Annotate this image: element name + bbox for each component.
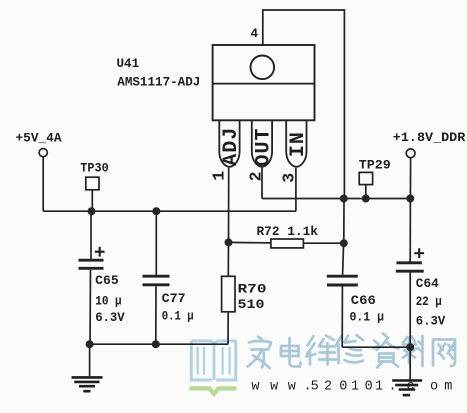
- ground symbol left: [72, 377, 103, 391]
- wire C66 top lead: [343, 243, 344, 275]
- svg-text:1: 1: [210, 171, 229, 181]
- char 家: [248, 337, 272, 369]
- wire C77 bottom lead: [155, 286, 157, 344]
- junction C77/ground node: [152, 340, 160, 348]
- wire C65 bottom lead: [89, 270, 92, 344]
- wire R70 top lead: [227, 242, 229, 276]
- svg-text:w: w: [251, 380, 259, 395]
- test point TP30: [86, 177, 99, 190]
- svg-text:0: 0: [339, 380, 347, 395]
- wire pin2 OUT down: [261, 168, 263, 199]
- svg-text:10 µ: 10 µ: [95, 295, 122, 309]
- wire +5V terminal down: [42, 157, 44, 211]
- wire ground rail right: [342, 346, 410, 348]
- wire R72 right lead: [303, 242, 343, 244]
- svg-text:TP29: TP29: [359, 159, 391, 173]
- svg-text:5: 5: [311, 380, 319, 395]
- svg-text:2: 2: [246, 171, 265, 181]
- wire TP29 stub: [365, 185, 367, 199]
- pin ADJ body: [219, 121, 239, 167]
- svg-text:w: w: [288, 380, 296, 395]
- wire +1.8V terminal down: [409, 158, 411, 199]
- svg-text:2: 2: [324, 380, 332, 395]
- svg-text:3: 3: [280, 173, 299, 183]
- wire R70 bottom lead: [227, 312, 229, 344]
- svg-text:4: 4: [251, 27, 259, 41]
- junction C65/ground node: [86, 340, 94, 348]
- svg-text:+1.8V_DDR: +1.8V_DDR: [393, 131, 466, 145]
- svg-text:1: 1: [351, 380, 359, 395]
- svg-text:OUT: OUT: [253, 127, 276, 166]
- op-amp U1 regulator U41 body: [213, 45, 315, 120]
- plus sign C64 polarity: [414, 248, 424, 258]
- svg-text:U41: U41: [117, 57, 140, 71]
- svg-text:c: c: [407, 380, 415, 395]
- char 料: [403, 336, 423, 366]
- svg-text:1: 1: [375, 380, 383, 395]
- svg-text:IN: IN: [287, 131, 310, 157]
- svg-text:R70: R70: [238, 283, 267, 297]
- svg-text:0.1 µ: 0.1 µ: [350, 311, 385, 325]
- terminal +1.8V_DDR: [406, 149, 415, 158]
- wire C66 bottom lead: [341, 286, 343, 347]
- wire C64 bottom lead: [409, 273, 411, 348]
- pin IN body: [286, 121, 306, 167]
- svg-text:C64: C64: [416, 277, 439, 291]
- svg-text:6.3V: 6.3V: [416, 315, 446, 329]
- svg-text:TP30: TP30: [80, 161, 109, 175]
- svg-text:0.1 µ: 0.1 µ: [162, 310, 194, 324]
- wire output rail to R72/C66 node: [343, 199, 345, 244]
- junction OUT/tab node: [340, 195, 348, 203]
- char 修: [336, 335, 364, 363]
- svg-text:ADJ: ADJ: [220, 127, 243, 166]
- junction C64/ground node: [406, 343, 414, 351]
- capacitor C65 plates: [79, 259, 104, 262]
- capacitor C66 plates: [327, 275, 358, 278]
- junction ADJ/R72/R70 node: [225, 238, 233, 246]
- wire ground left stem: [89, 344, 91, 376]
- junction R72/C66 node: [340, 239, 348, 247]
- wire ground rail left: [90, 343, 229, 345]
- svg-text:510: 510: [238, 298, 265, 312]
- wire TP30 stub: [91, 190, 93, 211]
- wire C77 top lead: [155, 211, 157, 275]
- wire R72 left lead: [229, 241, 271, 244]
- junction C77 node: [152, 207, 160, 215]
- test point TP29: [359, 172, 372, 184]
- svg-text:22 µ: 22 µ: [416, 295, 442, 309]
- svg-text:0: 0: [365, 380, 373, 395]
- svg-text:C65: C65: [95, 274, 119, 288]
- watermark url www.520101.com: [251, 380, 452, 395]
- char 维: [307, 336, 337, 365]
- plus sign C65 polarity: [95, 247, 105, 257]
- wire pin4 tab loop: [263, 10, 345, 199]
- ground symbol right: [392, 381, 422, 396]
- watermark logo green swoosh: [190, 388, 237, 394]
- junction TP30/C65 node: [88, 207, 96, 215]
- terminal +5V_4A: [39, 149, 47, 157]
- junction TP29 node: [362, 195, 370, 203]
- char 网: [433, 340, 455, 367]
- wire C65 top lead: [90, 211, 92, 259]
- svg-text:+5V_4A: +5V_4A: [16, 132, 62, 146]
- pin OUT body: [252, 121, 272, 167]
- svg-text:AMS1117-ADJ: AMS1117-ADJ: [117, 76, 200, 90]
- capacitor C77 plates: [143, 275, 170, 278]
- char 资: [373, 334, 399, 368]
- capacitor C64 plates: [397, 261, 422, 264]
- resistor R70: [222, 276, 235, 312]
- char 电: [281, 338, 301, 367]
- svg-text:6.3V: 6.3V: [95, 311, 125, 325]
- svg-text:w: w: [270, 380, 278, 395]
- wire input rail +5V: [43, 210, 296, 212]
- svg-text:o: o: [430, 380, 438, 395]
- watermark chinese characters 家电维修资料网: [248, 334, 456, 369]
- svg-text:C77: C77: [162, 292, 186, 306]
- watermark logo open book: [191, 341, 236, 380]
- svg-text:.: .: [389, 380, 397, 395]
- wire ground right stem: [409, 347, 411, 380]
- svg-text:R72 1.1k: R72 1.1k: [257, 225, 319, 239]
- wire pin3 IN down: [295, 168, 297, 211]
- svg-text:C66: C66: [351, 294, 376, 308]
- junction +1.8V/C64 node: [406, 195, 414, 203]
- svg-text:m: m: [444, 380, 452, 395]
- wire output rail +1.8V: [262, 198, 410, 200]
- resistor R72: [271, 239, 304, 248]
- wire C64 top lead: [409, 199, 411, 262]
- wire pin1 ADJ down: [228, 168, 230, 243]
